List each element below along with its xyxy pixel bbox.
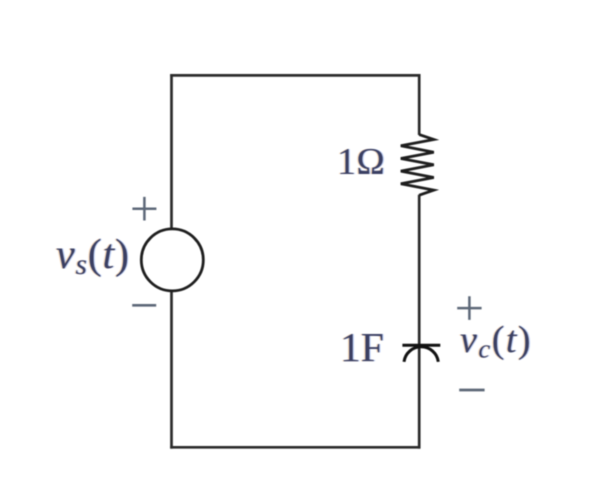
minus sign of capacitor polarity (right) (459, 389, 484, 392)
plus sign of source polarity (left) (132, 197, 156, 221)
wire right lower: capacitor down to bottom-right corner (418, 346, 421, 449)
label 1 ohm for resistor (337, 140, 385, 184)
wire left lower: source - terminal down to bottom-left corner (170, 291, 173, 449)
wire right middle: resistor bottom down to capacitor C1 (418, 195, 421, 346)
minus sign of source polarity (left) (132, 304, 156, 307)
resistor R (1 ohm) zigzag (401, 135, 434, 196)
label v_s(t) for voltage source (56, 231, 130, 282)
voltage source circle v_s (141, 229, 203, 291)
wire right upper: top-right corner down to resistor R1 top (418, 74, 421, 135)
capacitor C (1 F) curved bottom plate (404, 347, 438, 362)
wire bottom: bottom-left corner to capacitor bottom (170, 446, 420, 449)
wire top: node A (source +) to resistor top (170, 74, 420, 77)
label v_c(t) for capacitor voltage (460, 318, 532, 365)
wire left upper: top-left corner down to source + terminal (170, 74, 173, 229)
label 1F for capacitor (340, 323, 384, 371)
plus sign of capacitor polarity (right) (457, 296, 481, 320)
capacitor C (1 F) top flat plate (402, 344, 440, 347)
